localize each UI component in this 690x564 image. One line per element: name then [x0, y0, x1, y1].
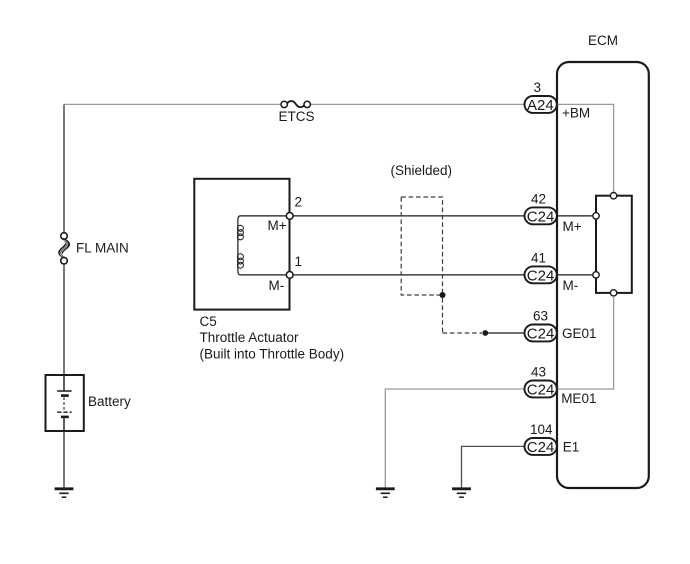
svg-text:C24: C24 [527, 268, 555, 285]
svg-text:104: 104 [530, 422, 553, 437]
connector C24 pin 104 [525, 438, 557, 456]
svg-text:3: 3 [534, 80, 542, 95]
node ECM internal bottom [610, 290, 616, 296]
svg-text:41: 41 [531, 251, 546, 266]
svg-text:M-: M- [563, 278, 579, 293]
wire ME01 [385, 389, 524, 488]
junction GE01 [482, 330, 488, 336]
svg-text:43: 43 [531, 365, 546, 380]
wire battery to ground [63, 431, 65, 488]
junction shield drain [440, 292, 446, 298]
connector C24 pin 63 [525, 325, 557, 343]
svg-text:(Shielded): (Shielded) [391, 163, 453, 178]
ECM internal driver box [596, 196, 632, 293]
svg-text:M+: M+ [268, 218, 287, 233]
svg-text:A24: A24 [527, 97, 554, 114]
wire battery feed top horizontal left of fuse [64, 103, 281, 105]
svg-text:Battery: Battery [88, 394, 131, 409]
svg-text:63: 63 [533, 309, 548, 324]
svg-text:C24: C24 [527, 439, 555, 456]
svg-text:ETCS: ETCS [279, 109, 315, 124]
pin 2 node [286, 213, 293, 220]
svg-text:M+: M+ [563, 219, 582, 234]
wire FL MAIN to battery [63, 264, 65, 375]
wire M+ [293, 215, 524, 217]
wire M- [293, 274, 524, 276]
svg-text:ME01: ME01 [561, 391, 596, 406]
wire E1 [462, 446, 525, 487]
connector C24 pin 41 [525, 266, 557, 284]
svg-text:C24: C24 [527, 326, 555, 343]
wire shield drain vertical (dashed) [442, 298, 444, 333]
wire ECM internal +BM feed [557, 104, 614, 192]
svg-text:C24: C24 [527, 382, 555, 399]
wire shield drain horizontal (dashed) [443, 332, 483, 334]
wire ECM internal M+ [557, 215, 593, 217]
svg-text:(Built into Throttle Body): (Built into Throttle Body) [200, 347, 345, 362]
node ECM internal top [610, 193, 616, 199]
ground battery [55, 489, 74, 497]
svg-text:Throttle Actuator: Throttle Actuator [200, 330, 300, 345]
svg-text:C24: C24 [527, 209, 555, 226]
svg-text:+BM: +BM [562, 106, 590, 121]
node ECM internal M- [593, 272, 599, 278]
wire GE01 [488, 332, 525, 334]
connector C24 pin 43 [525, 381, 557, 399]
svg-text:E1: E1 [563, 439, 580, 454]
throttle actuator C5 box [194, 179, 289, 310]
wire battery vertical upper [63, 104, 65, 232]
wire ECM internal ME01 return [557, 296, 614, 389]
svg-text:2: 2 [295, 195, 303, 210]
pin 1 node [286, 272, 293, 279]
wire top horizontal fuse to A24 [310, 103, 525, 105]
wire ECM internal M- [557, 274, 593, 276]
connector A24 pin 3 [525, 96, 557, 114]
svg-text:GE01: GE01 [562, 326, 597, 341]
svg-text:42: 42 [531, 192, 546, 207]
svg-text:M-: M- [269, 278, 285, 293]
fuse ETCS [281, 101, 310, 108]
node ECM internal M+ [593, 213, 599, 219]
ECM box U1 [557, 62, 649, 488]
motor coil M1 [237, 216, 287, 275]
svg-text:ECM: ECM [588, 33, 618, 48]
shield box [401, 197, 442, 295]
fusible link FL MAIN [59, 233, 69, 264]
ground ME01 [376, 489, 395, 497]
svg-text:FL MAIN: FL MAIN [76, 241, 129, 256]
svg-text:C5: C5 [200, 314, 217, 329]
ground E1 [452, 489, 471, 497]
connector C24 pin 42 [525, 207, 557, 225]
battery [46, 375, 84, 431]
svg-text:1: 1 [295, 254, 303, 269]
